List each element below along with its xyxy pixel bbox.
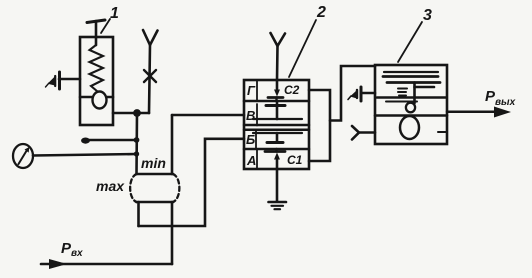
label 1 leader [101, 19, 110, 33]
output arrowhead [494, 107, 511, 118]
comparator 2 body [244, 80, 309, 169]
feedback bracket wire [309, 90, 330, 161]
label separator B [255, 131, 257, 149]
pressure gauge PG [13, 144, 33, 168]
atmosphere symbol line3 [275, 208, 281, 210]
node A junction dot [133, 109, 141, 117]
divider G/V [244, 100, 309, 103]
regulator U1 ball [93, 92, 107, 109]
vent symbol V3 bar2 [356, 90, 358, 98]
svg-text:2: 2 [316, 4, 326, 21]
nozzle C2 seat bar [268, 96, 283, 99]
vent symbol V1 bar2 [54, 76, 56, 86]
svg-text:Б: Б [246, 132, 255, 147]
membrane M1 long plate [253, 118, 302, 120]
vent pipe below comparator [276, 169, 279, 201]
vent symbol V3 pipe [361, 92, 375, 95]
svg-text:max: max [96, 178, 125, 194]
label 2 leader [289, 20, 316, 77]
membrane M2 plate [267, 141, 283, 144]
atmosphere symbol line1 [269, 201, 287, 204]
label separator V [256, 104, 258, 126]
svg-text:С2: С2 [284, 83, 300, 97]
center membrane double line top [244, 124, 309, 127]
setpoint dashed left arc [130, 174, 136, 202]
membrane M1 plate [266, 104, 285, 107]
regulator U1 spring [90, 45, 104, 92]
amplifier membrane plate bottom [387, 81, 440, 84]
valve X mark [144, 70, 156, 82]
amplifier right notch [438, 131, 447, 133]
drain Y pipe [359, 131, 375, 134]
drain Y arms [352, 126, 359, 140]
vent symbol V1 pipe [59, 78, 80, 81]
amplifier 3 body [375, 65, 447, 144]
main riser wire [135, 113, 138, 174]
label separator A [256, 149, 258, 169]
Pvx arrowhead [49, 259, 67, 269]
membrane M2 long plate [253, 132, 302, 134]
vent Y arms above comparator [271, 33, 286, 46]
vent symbol V1 bar [58, 72, 61, 89]
label 3 leader [398, 22, 422, 62]
plugged stub port [85, 139, 137, 142]
regulator U1 divider [80, 96, 113, 99]
node B dot [134, 137, 140, 143]
vent riser above comparator [276, 46, 279, 80]
outlet wire to chamber B [139, 139, 245, 226]
gauge wire [33, 154, 137, 156]
setpoint dashed right arc [173, 174, 179, 202]
membrane M1 stem [276, 101, 279, 119]
vent symbol V3 bar [360, 87, 363, 101]
svg-text:min: min [141, 155, 166, 171]
center membrane double line bottom [244, 129, 309, 132]
svg-text:3: 3 [423, 7, 432, 24]
supply riser lower [171, 202, 174, 264]
amplifier ball valve [406, 103, 415, 113]
amplifier seat line [386, 101, 417, 103]
atmosphere symbol line2 [272, 205, 284, 207]
regulator U1 stem [95, 21, 98, 45]
setpoint unit top line [137, 173, 174, 176]
vent Y arms [143, 30, 158, 45]
amplifier flapper bar [415, 86, 435, 89]
nozzle C2 arrow [276, 81, 279, 91]
supply riser upper [171, 115, 174, 174]
regulator U1 vent cap [87, 20, 105, 23]
nozzle C1 seat bar [265, 150, 285, 153]
svg-text:С1: С1 [287, 153, 303, 167]
svg-text:А: А [246, 153, 256, 168]
wire bracket to amplifier 3 [330, 66, 375, 121]
amplifier lower divider [375, 114, 447, 117]
amplifier spring teeth [398, 88, 407, 90]
vent symbol V3 arrow [350, 91, 357, 99]
regulator U1 body [80, 37, 113, 125]
svg-text:Г: Г [247, 83, 256, 98]
membrane M2 stem [276, 133, 279, 142]
output wire Pvyx [447, 111, 498, 114]
label separator G [256, 80, 258, 101]
stub end dot [81, 138, 90, 144]
wire to chamber V [172, 114, 244, 117]
svg-text:1: 1 [110, 5, 119, 22]
node C dot [134, 151, 139, 156]
wire box1 to node A [113, 112, 149, 115]
vent line with valve X [149, 45, 150, 113]
vent symbol V1 arrow [49, 78, 56, 86]
amplifier poppet ball [400, 116, 419, 139]
amplifier divider [377, 96, 446, 99]
svg-text:В: В [246, 108, 255, 123]
lower chamber left wall [137, 202, 140, 226]
Pvx supply wire [41, 263, 172, 266]
divider B/A [244, 148, 309, 151]
amplifier membrane plate top [383, 75, 438, 78]
setpoint unit bottom line [137, 201, 174, 204]
amplifier stem [413, 83, 416, 104]
gauge needle [19, 150, 28, 164]
nozzle C1 arrow [276, 158, 279, 168]
amplifier top thin plate [384, 71, 438, 73]
